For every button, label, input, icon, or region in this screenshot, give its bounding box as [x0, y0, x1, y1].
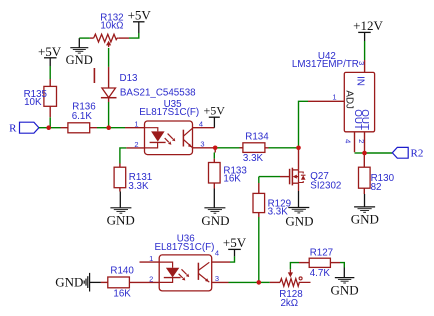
D13 designator: [120, 73, 139, 84]
svg-text:16K: 16K: [113, 289, 131, 300]
node B junction: [106, 125, 111, 130]
R129 value 3.3K: [268, 207, 289, 218]
wire R136 to node B: [97, 127, 109, 129]
svg-text:4: 4: [344, 139, 353, 143]
svg-text:GND: GND: [285, 214, 313, 229]
Q27 designator: [310, 171, 329, 182]
U42 pin 1 number: [332, 92, 336, 101]
U35 value EL817S1C(F): [139, 107, 199, 118]
U35 pin 4 stub: [193, 127, 215, 129]
node F junction: [257, 280, 262, 285]
wire node E to R130: [363, 153, 365, 168]
ground GND (under R127): [331, 268, 359, 298]
wire U36 pin 3 to node F: [229, 281, 259, 283]
svg-text:4: 4: [199, 119, 203, 128]
node A junction: [46, 125, 51, 130]
U42 pin OUT label (pin 4): [352, 109, 363, 130]
wire node E to port R2: [365, 152, 393, 154]
resistor R140: [101, 277, 130, 288]
wire node C to R134: [215, 147, 243, 149]
svg-text:R: R: [9, 123, 17, 135]
op-amp U35 optocoupler body: [145, 121, 193, 155]
wire node C to R133: [213, 148, 216, 159]
R127 designator: [310, 248, 333, 259]
U35 pin 3 number: [200, 139, 204, 148]
ground GND (under R131): [107, 192, 135, 228]
U36 pin 3 stub: [212, 281, 229, 283]
R130 designator: [371, 173, 395, 184]
potentiometer R128: [280, 269, 311, 286]
U42 pin 3 number: [357, 61, 366, 65]
resistor R133: [209, 159, 221, 189]
R140 value 16K: [113, 289, 131, 300]
wire D13 to node B: [108, 102, 110, 128]
svg-text:GND: GND: [55, 275, 83, 290]
svg-text:R134: R134: [245, 131, 269, 142]
U35 pin 2 number: [134, 140, 138, 149]
R131 value 3.3K: [128, 181, 149, 192]
svg-text:2: 2: [357, 139, 366, 143]
wire node D down to Q27 drain: [298, 148, 300, 170]
R132 value 10kOhm: [100, 21, 123, 32]
svg-text:D13: D13: [120, 73, 139, 84]
resistor R130: [359, 167, 371, 194]
U36 pin 1 stub: [140, 261, 160, 263]
resistor R134: [240, 143, 269, 153]
U36 designator: [177, 233, 196, 244]
svg-text:3.3K: 3.3K: [128, 181, 149, 192]
svg-text:+5V: +5V: [38, 44, 62, 59]
wire R127 to GND: [340, 263, 344, 268]
svg-text:+5V: +5V: [203, 104, 225, 118]
R131 designator: [129, 172, 152, 183]
R128 designator: [279, 289, 303, 300]
node D junction (R134 / U42 ADJ / Q27 drain): [296, 146, 301, 151]
port R2: [392, 147, 423, 159]
R130 value 82: [371, 182, 382, 193]
R127 value 4.7K: [310, 268, 331, 279]
wire R132 wiper to D13: [108, 48, 110, 67]
power +12V node: [353, 18, 383, 41]
wire U35 pin 2 to R131: [120, 148, 145, 164]
resistor R127: [299, 258, 340, 267]
wire node A to R136: [49, 127, 61, 129]
U35 designator: [164, 99, 183, 110]
svg-text:3: 3: [200, 139, 204, 148]
U36 pin 4 stub: [212, 256, 235, 262]
resistor R136: [61, 123, 98, 133]
wire node D up to U42 pin 1: [299, 101, 309, 148]
svg-text:BAS21_C545538: BAS21_C545538: [120, 87, 196, 98]
svg-text:6.1K: 6.1K: [72, 111, 93, 122]
U36 pin 3 number: [215, 274, 219, 283]
port R: [9, 122, 39, 134]
wire port R to node A: [39, 127, 49, 129]
svg-text:GND: GND: [331, 283, 359, 298]
svg-text:R127: R127: [310, 248, 333, 259]
wire R140 to U36 pin 2: [129, 281, 159, 283]
U35 pin 3 stub: [193, 147, 214, 149]
svg-text:2: 2: [149, 274, 153, 283]
svg-text:R140: R140: [110, 265, 134, 276]
svg-text:+5V: +5V: [223, 235, 247, 250]
op-amp U36 optocoupler body: [159, 255, 212, 291]
wire node B to U35 pin 1: [109, 127, 145, 129]
transistor Q27: [290, 168, 306, 191]
svg-text:GND: GND: [107, 213, 135, 228]
node E junction (OUT): [362, 151, 367, 156]
U42 pin 2 number: [357, 139, 366, 143]
svg-text:EL817S1C(F): EL817S1C(F): [154, 242, 214, 253]
svg-text:16K: 16K: [223, 173, 241, 184]
wire GND to R132 left: [79, 37, 93, 39]
svg-text:3: 3: [215, 274, 219, 283]
svg-text:3.3K: 3.3K: [243, 153, 264, 164]
svg-text:+12V: +12V: [353, 18, 383, 33]
resistor R129: [253, 183, 265, 217]
D13 value BAS21_C545538: [120, 87, 196, 98]
wire +12V to U42 pin 3: [364, 41, 366, 60]
svg-text:82: 82: [371, 182, 382, 193]
R136 designator: [72, 102, 96, 113]
Q27 value SI2302: [310, 181, 341, 192]
ground GND port (left, feeds R140): [55, 273, 101, 292]
U36 pin 1 number: [149, 254, 153, 263]
wire R132 right to +5V: [119, 33, 139, 38]
svg-text:R2: R2: [411, 148, 424, 160]
U42 pin 4 number: [344, 139, 353, 143]
wire R135 to node A: [49, 117, 51, 127]
R129 designator: [268, 198, 291, 209]
regulator U42 LM317 body: [308, 60, 375, 153]
U36 value EL817S1C(F): [154, 242, 214, 253]
diode D13: [101, 67, 117, 102]
R133 value 16K: [223, 173, 241, 184]
svg-text:GND: GND: [351, 212, 379, 227]
R136 value 6.1K: [72, 111, 93, 122]
power +5V node (left, feeds R135): [38, 44, 62, 66]
U35 pin 4 number: [199, 119, 203, 128]
wire U42 outputs to node E: [355, 152, 365, 154]
R134 designator: [245, 131, 269, 142]
svg-text:EL817S1C(F): EL817S1C(F): [139, 107, 199, 118]
U35 pin 1 number: [134, 120, 138, 129]
svg-text:+5V: +5V: [128, 8, 152, 23]
U42 value LM317EMP/TR: [292, 59, 359, 70]
R134 value 3.3K: [243, 153, 264, 164]
R133 designator: [223, 165, 247, 176]
U42 pin IN label: [355, 76, 366, 86]
power +5V node (above U35 pin 4): [203, 104, 225, 128]
svg-text:10kΩ: 10kΩ: [100, 21, 123, 32]
R135 designator: [24, 89, 48, 100]
svg-text:LM317EMP/TR: LM317EMP/TR: [292, 59, 359, 70]
R140 designator: [110, 265, 134, 276]
svg-text:ADJ: ADJ: [344, 90, 355, 109]
svg-text:1: 1: [332, 92, 336, 101]
svg-text:SI2302: SI2302: [310, 181, 341, 192]
wire node F to R128: [259, 281, 280, 283]
svg-text:10K: 10K: [24, 97, 42, 108]
svg-text:GND: GND: [201, 213, 229, 228]
power +5V node (top, R132): [128, 8, 152, 33]
svg-text:4.7K: 4.7K: [310, 268, 331, 279]
svg-text:IN: IN: [355, 76, 366, 86]
no-ERC tick mark: [93, 68, 95, 83]
svg-text:4: 4: [215, 248, 219, 257]
svg-text:3.3K: 3.3K: [268, 207, 289, 218]
svg-text:1: 1: [149, 254, 153, 263]
wire Q27 gate to R129: [259, 177, 290, 183]
U42 pin OUT label (pin 2): [359, 109, 370, 130]
wire R134 to node D: [269, 147, 299, 149]
resistor R135: [44, 79, 57, 117]
ground GND (under R130): [351, 194, 379, 227]
U36 pin 4 number: [215, 248, 219, 257]
R128 value 2kOhm: [280, 298, 298, 309]
R132 designator: [100, 13, 123, 24]
U42 pin ADJ label: [344, 90, 355, 109]
resistor R131: [114, 164, 126, 192]
svg-text:OUT: OUT: [359, 109, 370, 130]
U36 pin 2 number: [149, 274, 153, 283]
power +5V node (above U36 pin 4): [223, 235, 247, 256]
svg-text:GND: GND: [66, 53, 93, 67]
power GND node (top left, R132 end): [66, 38, 93, 67]
wire +5V to R135: [49, 66, 51, 79]
svg-text:3: 3: [357, 61, 366, 65]
potentiometer R132: [94, 34, 119, 47]
wire R129 to node F: [258, 217, 260, 282]
U42 designator: [318, 51, 336, 62]
R135 value 10K: [24, 97, 42, 108]
svg-text:1: 1: [134, 120, 138, 129]
ground GND (under Q27 source): [285, 191, 313, 229]
ground GND (under R133): [201, 189, 229, 228]
wire R128 wiper to R127: [290, 263, 299, 270]
svg-text:2kΩ: 2kΩ: [280, 298, 298, 309]
node C junction (U35 pin3 / R133 / R134): [213, 146, 218, 151]
